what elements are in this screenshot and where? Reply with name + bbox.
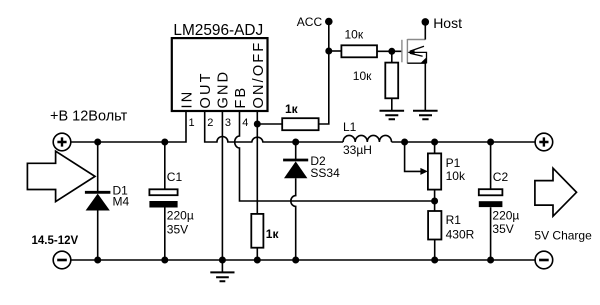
svg-text:14.5-12V: 14.5-12V	[32, 235, 79, 247]
svg-text:+В 12Вольт: +В 12Вольт	[50, 109, 128, 125]
svg-text:R1: R1	[446, 213, 462, 227]
svg-text:Host: Host	[433, 15, 462, 31]
svg-text:GND: GND	[216, 70, 232, 109]
svg-text:1к: 1к	[285, 102, 299, 116]
svg-text:4: 4	[242, 117, 248, 129]
svg-text:10k: 10k	[446, 169, 466, 183]
svg-text:2: 2	[207, 117, 213, 129]
svg-text:C1: C1	[167, 170, 183, 184]
svg-text:ACC: ACC	[297, 15, 323, 29]
svg-text:M4: M4	[113, 195, 130, 209]
svg-text:SS34: SS34	[310, 166, 340, 180]
svg-text:33µH: 33µH	[343, 143, 372, 157]
svg-text:1к: 1к	[266, 227, 280, 241]
svg-text:FB: FB	[233, 86, 249, 109]
svg-text:3: 3	[225, 117, 231, 129]
svg-text:10к: 10к	[345, 28, 364, 42]
svg-text:10к: 10к	[353, 69, 372, 83]
svg-text:ON/OFF: ON/OFF	[251, 41, 267, 109]
svg-text:35V: 35V	[492, 222, 513, 236]
svg-text:1: 1	[189, 117, 195, 129]
svg-text:35V: 35V	[167, 222, 188, 236]
svg-text:5V Charge: 5V Charge	[534, 229, 592, 243]
svg-text:430R: 430R	[446, 228, 475, 242]
svg-text:220µ: 220µ	[492, 209, 519, 223]
svg-text:OUT: OUT	[198, 71, 214, 108]
svg-text:LM2596-ADJ: LM2596-ADJ	[173, 22, 263, 39]
svg-text:220µ: 220µ	[167, 209, 194, 223]
svg-text:C2: C2	[493, 170, 509, 184]
svg-text:IN: IN	[179, 90, 195, 109]
svg-text:L1: L1	[343, 120, 357, 134]
